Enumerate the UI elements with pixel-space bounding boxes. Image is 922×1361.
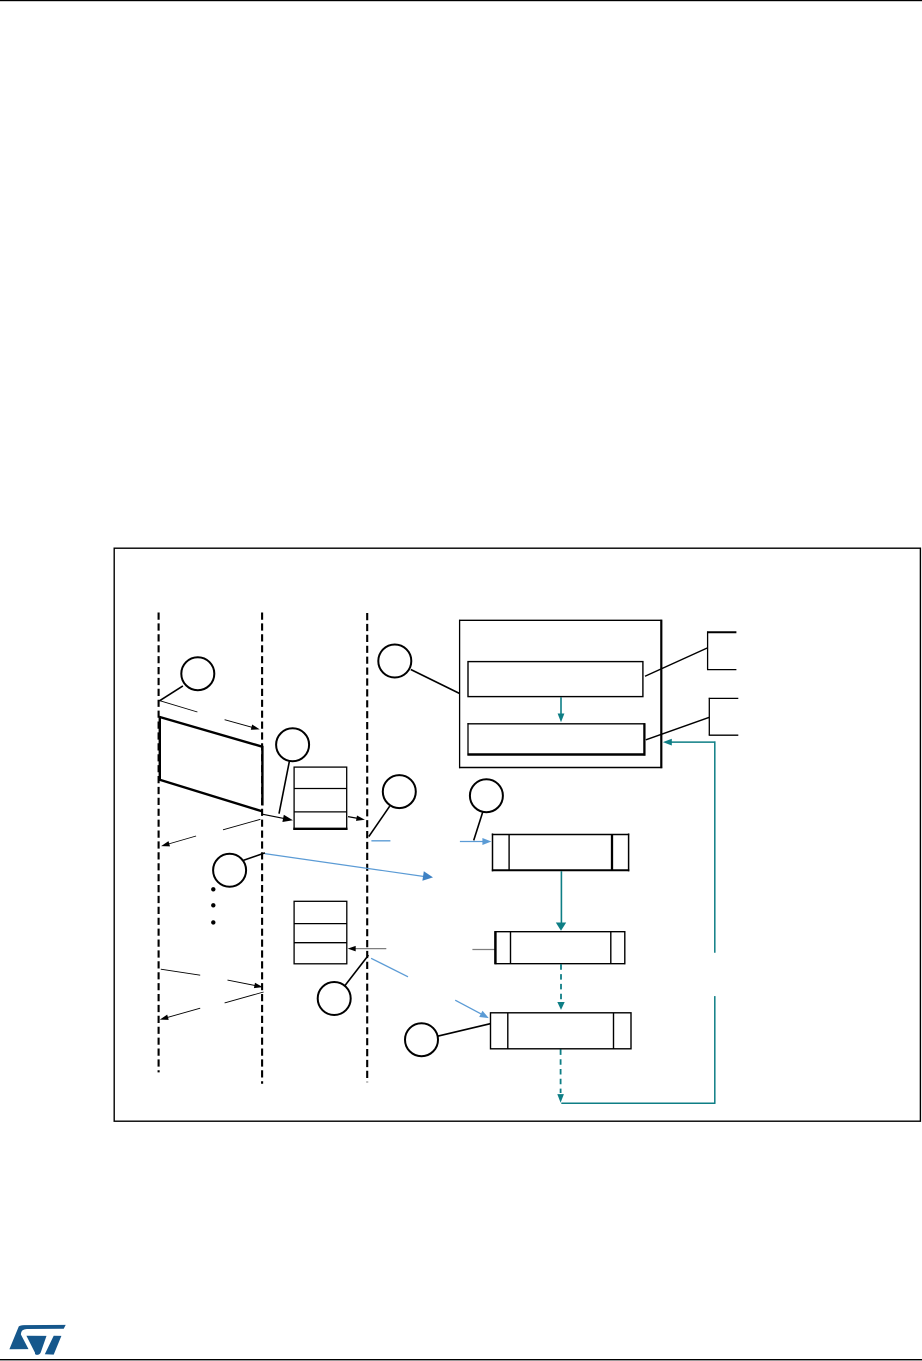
- ellipsis dots: [211, 887, 215, 925]
- band right edge: [261, 746, 263, 806]
- callout circle 8: [378, 645, 411, 678]
- small open box 1: [707, 631, 736, 669]
- blue arrow into process 3: [455, 1000, 489, 1018]
- blue arrow long: [265, 854, 433, 881]
- callout circle 1: [181, 657, 214, 690]
- lifeline 1 (dashed): [158, 613, 160, 1073]
- small open box 2: [709, 698, 739, 735]
- ST logo: [9, 1325, 65, 1355]
- leader inner rect 2 to box 2: [646, 717, 709, 740]
- leader 7: [438, 1024, 491, 1036]
- process rect 2: [495, 931, 626, 964]
- inner rect 1: [468, 662, 643, 697]
- leader 3: [369, 806, 390, 836]
- teal feedback bottom horizontal: [561, 1102, 715, 1104]
- return 1 segment b: [161, 836, 196, 846]
- teal feedback right vertical lower: [714, 996, 716, 1103]
- leader 5: [243, 853, 265, 861]
- teal feedback top horizontal: [671, 741, 716, 743]
- process rect 1: [492, 833, 630, 871]
- leader 1: [160, 686, 183, 701]
- callout circle 3: [383, 775, 416, 808]
- callout circle 7: [405, 1023, 438, 1056]
- figure frame: [114, 548, 920, 1121]
- leader 4: [474, 812, 483, 841]
- message 1 segment b: [225, 720, 260, 730]
- process rect 3: [491, 1013, 632, 1049]
- teal dashed arrow below process 3: [557, 1049, 564, 1102]
- blue leader segment a: [371, 958, 408, 977]
- grey arrow into table 2: [348, 946, 387, 952]
- lifeline 3 (dashed): [366, 613, 368, 1082]
- callout circle 2: [276, 728, 309, 761]
- return 2 segment a: [225, 992, 264, 1003]
- leader inner rect 1 to box 1: [645, 648, 707, 676]
- band bottom edge: [159, 780, 262, 812]
- message 2 segment b: [228, 980, 263, 988]
- teal arrow between inner rects: [558, 697, 565, 722]
- arrow table 1 to lifeline 3: [348, 816, 365, 821]
- table box 1: [293, 767, 347, 829]
- blue arrow into process 1: [460, 838, 492, 845]
- leader 2: [279, 761, 289, 814]
- table box 2: [294, 901, 347, 964]
- return 2 segment b: [160, 1008, 200, 1020]
- teal feedback right vertical upper: [714, 741, 716, 952]
- callout circle 6: [318, 982, 351, 1015]
- blue stub near lifeline 3: [371, 840, 390, 842]
- page bottom rule: [0, 1359, 922, 1360]
- leader 8: [411, 670, 460, 694]
- message 1 segment a: [160, 701, 198, 712]
- container rect: [459, 620, 662, 769]
- grey stub into process 2: [472, 949, 495, 951]
- page top rule: [0, 0, 922, 1]
- teal dashed arrow process 2 to 3: [557, 964, 564, 1010]
- inner rect 2: [467, 723, 645, 756]
- teal arrow process 1 to 2: [556, 871, 566, 930]
- callout circle 5: [213, 854, 246, 887]
- arrow band to table 1: [262, 814, 293, 822]
- callout circle 4: [470, 779, 503, 812]
- teal feedback arrowhead: [663, 739, 672, 746]
- message 2 segment a: [161, 969, 200, 975]
- band left edge: [159, 716, 161, 780]
- leader 6: [345, 955, 368, 985]
- lifeline 2 (dashed): [261, 613, 263, 1084]
- band top edge: [159, 717, 262, 747]
- return 1 segment a: [223, 819, 260, 830]
